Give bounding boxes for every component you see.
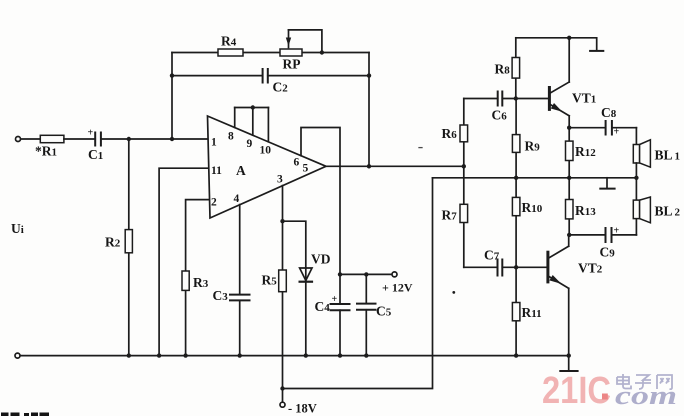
- svg-text:BL1: BL1: [655, 148, 681, 163]
- svg-text:1: 1: [211, 137, 217, 149]
- svg-text:C1: C1: [88, 147, 103, 162]
- svg-text:R7: R7: [442, 208, 458, 223]
- node rail C3: [238, 353, 242, 357]
- wire pin 8: [234, 108, 236, 128]
- wire C4 to ground rail: [339, 310, 341, 355]
- svg-text:R5: R5: [262, 273, 278, 288]
- svg-text:- 18V: - 18V: [288, 402, 317, 416]
- wire VT1 base line: [464, 98, 498, 100]
- resistor R2: [125, 230, 132, 253]
- wire VT2 base line / C7: [464, 266, 498, 268]
- wire BL1 to mid node: [635, 163, 637, 178]
- wire input to R1: [21, 138, 40, 140]
- speaker BL2: [635, 219, 637, 235]
- capacitor C8: [606, 121, 612, 135]
- node rail VD: [304, 353, 308, 357]
- wire C9 line: [569, 234, 605, 236]
- wire bracket over pins 8-10: [235, 107, 269, 109]
- node rail R3: [183, 353, 187, 357]
- wire -18V stub: [282, 389, 284, 403]
- node rail R2: [127, 353, 131, 357]
- svg-text:+ 12V: + 12V: [382, 281, 413, 295]
- watermark dian zi wang glyphs: [617, 374, 672, 389]
- ground bottom right: [560, 370, 577, 372]
- node C2 right: [367, 73, 371, 77]
- wire BL1 drop: [635, 128, 637, 145]
- node output to R6/R7: [462, 164, 466, 168]
- wire R2 branch vertical: [128, 139, 130, 356]
- capacitor C1: [95, 133, 101, 146]
- capacitor C3: [230, 295, 250, 301]
- wire pin 10: [267, 108, 269, 142]
- resistor R5: [279, 270, 287, 292]
- resistor R7: [460, 204, 468, 222]
- stray speck: [452, 291, 455, 294]
- node R8 bottom: [514, 96, 518, 100]
- watermark dot: [602, 394, 608, 400]
- wire R11 vertical: [515, 267, 517, 355]
- svg-text:11: 11: [211, 165, 222, 177]
- svg-text:3: 3: [277, 174, 283, 186]
- wire R9 vertical: [515, 99, 517, 178]
- svg-text:C5: C5: [376, 304, 392, 319]
- wire R8 vertical: [515, 38, 517, 99]
- node pin 9 top: [251, 105, 255, 109]
- svg-text:9: 9: [247, 138, 253, 150]
- resistor R11: [512, 303, 520, 321]
- node feedback/output: [367, 164, 371, 168]
- wire R1 to C1: [64, 138, 95, 140]
- svg-text:com: com: [615, 381, 677, 410]
- stray dash: [419, 147, 422, 149]
- wire VD branch: [283, 221, 306, 268]
- svg-text:R13: R13: [575, 203, 596, 218]
- input terminal: [16, 137, 21, 142]
- svg-text:C7: C7: [484, 248, 500, 263]
- svg-text:BL2: BL2: [655, 204, 681, 219]
- wire RP wiper loop: [289, 30, 322, 53]
- resistor R10: [512, 197, 520, 215]
- node C4 top on +12V line: [338, 272, 342, 276]
- wire pin 11: [159, 168, 209, 355]
- capacitor C6: [498, 92, 503, 106]
- svg-text:10: 10: [260, 145, 272, 157]
- node rail pin11: [157, 353, 161, 357]
- speaker BL1: [633, 145, 639, 164]
- svg-text:C4: C4: [315, 299, 331, 314]
- wire feedback right vertical to output: [368, 53, 370, 167]
- capacitor C5: [357, 304, 376, 310]
- svg-text:C3: C3: [213, 288, 229, 303]
- resistor R12: [568, 128, 570, 178]
- ground rail bottom: [15, 353, 20, 358]
- node rail VT2 emitter: [567, 353, 571, 357]
- wire op-amp output: [326, 165, 464, 167]
- bottom-left cropped text: [1, 413, 49, 416]
- wire C1 to op-amp pin 1: [101, 138, 208, 140]
- wire pin 2: [186, 200, 210, 356]
- node R12/R13: [567, 176, 571, 180]
- svg-text:2: 2: [211, 197, 217, 209]
- wire C8 line: [569, 127, 605, 129]
- node pin3/VD junction: [280, 219, 284, 223]
- transistor VT1: [548, 88, 551, 110]
- resistor R3: [182, 271, 189, 290]
- svg-text:R6: R6: [442, 126, 458, 141]
- wire C5 vertical: [365, 274, 367, 303]
- wire pin 4 vertical: [239, 205, 241, 295]
- svg-text:5: 5: [303, 163, 309, 175]
- resistor R4: [218, 49, 243, 56]
- node feedback/input junction: [170, 137, 174, 141]
- svg-text:R3: R3: [193, 275, 209, 290]
- resistor R8: [512, 58, 520, 79]
- node C7/R10/R11: [514, 265, 518, 269]
- wire feedback left vertical: [171, 53, 173, 140]
- potentiometer RP: [280, 49, 302, 56]
- diode VD: [300, 268, 312, 281]
- svg-text:4: 4: [234, 193, 240, 205]
- wire pin 3 vertical / R5 branch: [282, 186, 284, 389]
- wire top feedback rail: [172, 52, 369, 54]
- capacitor C2: [263, 69, 268, 83]
- transistor VT2: [546, 252, 549, 282]
- node -18V tap: [280, 386, 284, 390]
- svg-text:+: +: [614, 226, 620, 237]
- wire +12V line: [340, 273, 392, 275]
- wire C2 line: [172, 75, 263, 77]
- wire R7 vertical: [463, 166, 465, 267]
- wire -18V feed: [283, 178, 433, 389]
- svg-text:RP: RP: [283, 57, 301, 72]
- ground mid right: [606, 178, 608, 189]
- RP wiper arrow: [288, 30, 290, 48]
- node VT1 emitter: [567, 126, 571, 130]
- svg-text:R12: R12: [575, 144, 596, 159]
- svg-text:*R1: *R1: [35, 144, 57, 159]
- capacitor C9: [606, 228, 612, 242]
- svg-text:C9: C9: [600, 245, 616, 260]
- svg-text:R2: R2: [105, 235, 121, 250]
- wire pin 9: [252, 108, 254, 136]
- svg-text:Ui: Ui: [11, 221, 24, 236]
- node VT1 collector top: [567, 36, 571, 40]
- resistor R9: [512, 135, 520, 153]
- node at R2 tap: [127, 137, 131, 141]
- wire pin 6 supply loop: [301, 128, 340, 275]
- node rail C5: [364, 353, 368, 357]
- svg-text:VT2: VT2: [578, 261, 603, 276]
- node RP loop to rail: [320, 50, 324, 54]
- svg-text:VD: VD: [311, 252, 331, 267]
- svg-text:R4: R4: [221, 34, 237, 49]
- -18V terminal: [280, 402, 285, 407]
- node R9/R10: [514, 176, 518, 180]
- svg-text:C6: C6: [492, 108, 508, 123]
- svg-text:A: A: [236, 163, 246, 178]
- svg-text:6: 6: [294, 157, 300, 169]
- svg-text:+: +: [88, 128, 94, 139]
- capacitor C7: [498, 260, 503, 276]
- svg-text:R9: R9: [525, 139, 541, 154]
- resistor R6: [460, 125, 468, 142]
- svg-text:R10: R10: [522, 200, 543, 215]
- wire top supply rail: [516, 38, 597, 51]
- svg-text:C2: C2: [273, 80, 289, 95]
- +12V terminal: [392, 272, 397, 277]
- ground top right: [590, 50, 603, 52]
- svg-text:R11: R11: [522, 305, 542, 320]
- svg-text:+: +: [332, 294, 338, 305]
- svg-text:VT1: VT1: [572, 91, 596, 106]
- svg-text:C8: C8: [601, 105, 617, 120]
- svg-text:+: +: [614, 127, 620, 138]
- resistor R1: [40, 135, 64, 142]
- resistor R13: [568, 178, 570, 235]
- wire R10 vertical: [515, 178, 517, 267]
- node rail C4: [338, 353, 342, 357]
- op-amp U A triangle: [208, 116, 327, 218]
- capacitor C4: [331, 304, 350, 310]
- svg-text:8: 8: [228, 131, 234, 143]
- wire R6 vertical: [463, 99, 465, 167]
- svg-text:21IC: 21IC: [542, 370, 611, 412]
- svg-text:R8: R8: [495, 62, 511, 77]
- node C2 left: [170, 73, 174, 77]
- node rail R11: [514, 353, 518, 357]
- node R13/C9/VT2 collector: [567, 233, 571, 237]
- wire mid rail: [433, 177, 637, 179]
- node BL mid: [634, 176, 638, 180]
- node C5 top: [364, 272, 368, 276]
